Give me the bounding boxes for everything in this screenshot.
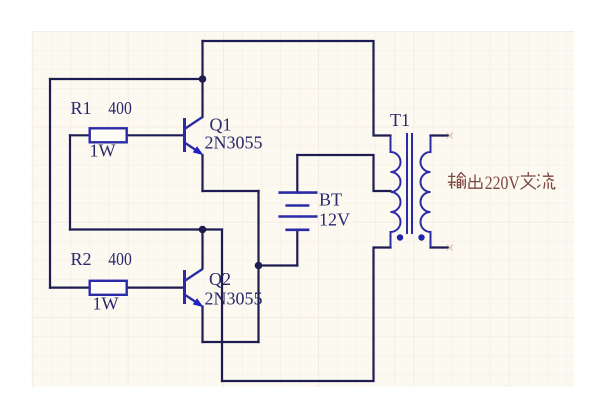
wire R1 left lead bbox=[70, 134, 90, 136]
svg-text:220V: 220V bbox=[485, 173, 520, 194]
transformer T1 core bbox=[407, 133, 412, 234]
wire battery negative pin bbox=[296, 230, 298, 266]
svg-text:R1: R1 bbox=[71, 98, 92, 118]
svg-text:Q2: Q2 bbox=[209, 269, 231, 289]
transformer T1 polarity dot secondary bbox=[418, 234, 424, 240]
no-connect x secondary top bbox=[447, 133, 453, 139]
battery BT plates bbox=[278, 193, 317, 230]
wire left rail vertical bbox=[49, 79, 51, 288]
wire Q1 collector vertical bbox=[201, 41, 203, 117]
wire emitter bus vertical bbox=[257, 191, 259, 342]
transistor Q1 bbox=[185, 117, 204, 155]
wire Q2 collector vertical bbox=[201, 230, 203, 269]
svg-text:Q1: Q1 bbox=[210, 115, 232, 135]
junction node at Q2 collector bbox=[199, 226, 207, 234]
svg-text:2N3055: 2N3055 bbox=[205, 133, 263, 153]
svg-text:T1: T1 bbox=[390, 110, 410, 130]
resistor R2 body bbox=[90, 281, 127, 295]
junction node at collector rail / left rail bbox=[199, 75, 207, 83]
transistor Q2 bbox=[185, 269, 204, 307]
svg-text:1W: 1W bbox=[93, 294, 119, 314]
wire R2 right lead to Q2 base bbox=[127, 287, 184, 289]
svg-text:400: 400 bbox=[108, 249, 132, 269]
wire R2 left lead bbox=[50, 287, 90, 289]
svg-text:2N3055: 2N3055 bbox=[205, 289, 263, 309]
junction node at battery negative bbox=[255, 262, 263, 270]
transformer T1 polarity dot primary bbox=[397, 234, 403, 240]
wire left rail horizontal to collector node bbox=[50, 78, 203, 80]
wire Q2 emitter vertical bbox=[201, 307, 203, 343]
schematic sheet background bbox=[32, 31, 575, 387]
transformer T1 secondary winding bbox=[421, 136, 431, 248]
svg-text:12V: 12V bbox=[319, 210, 350, 230]
hanzi chu 出 bbox=[469, 175, 482, 189]
wire battery positive pin bbox=[296, 155, 298, 193]
hanzi liu 流 bbox=[537, 172, 555, 189]
wire R1-left vertical drop bbox=[69, 135, 71, 229]
wire cross run to Q2 collector node bbox=[70, 228, 222, 230]
wire Q1 emitter vertical bbox=[201, 155, 203, 191]
wire battery negative run bbox=[259, 264, 298, 266]
svg-text:BT: BT bbox=[319, 190, 342, 210]
resistor R1 body bbox=[90, 128, 127, 142]
no-connect x secondary bottom bbox=[447, 245, 453, 251]
wire R1 right lead to Q1 base bbox=[127, 134, 184, 136]
hanzi jiao 交 bbox=[521, 172, 536, 189]
wire battery positive run to centre tap bbox=[297, 155, 390, 191]
wire secondary bottom lead bbox=[431, 246, 451, 248]
wire right drop of collector node bbox=[221, 230, 223, 382]
svg-text:R2: R2 bbox=[71, 249, 92, 269]
wire Q1 emitter run bbox=[203, 190, 259, 192]
svg-text:1W: 1W bbox=[90, 141, 116, 161]
wire secondary top lead bbox=[431, 134, 451, 136]
svg-text:400: 400 bbox=[108, 98, 132, 118]
transformer T1 primary winding bbox=[391, 136, 401, 248]
wire top rail from Q1 collector to T1 primary top bbox=[203, 41, 391, 136]
wire bottom rail bbox=[222, 248, 391, 382]
wire Q2 emitter run bbox=[203, 341, 259, 343]
hanzi shu 输 bbox=[448, 173, 456, 189]
label output note 输出220V交流 bbox=[448, 172, 555, 189]
